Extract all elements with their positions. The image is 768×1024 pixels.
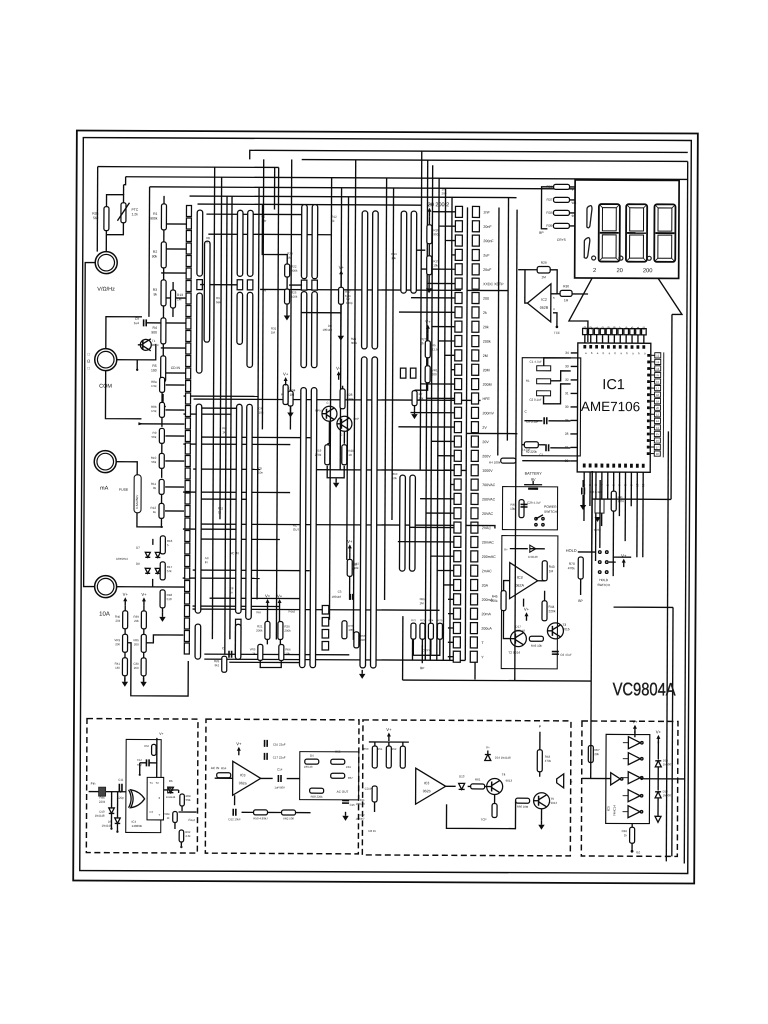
svg-text:20: 20 [616,268,622,274]
svg-text:R60 10M: R60 10M [517,805,529,809]
svg-text:2mAC: 2mAC [482,569,492,573]
svg-text:AC IN: AC IN [230,551,239,555]
svg-text:V+: V+ [632,719,638,724]
svg-text:200: 200 [115,642,120,646]
svg-text:1N4007: 1N4007 [663,762,673,766]
svg-text:D6: D6 [169,779,173,783]
svg-text:C: C [340,433,342,437]
svg-text:T1: T1 [150,781,154,785]
svg-text:062A: 062A [515,584,524,588]
svg-text:900: 900 [151,330,157,334]
svg-text:1n: 1n [230,590,234,594]
svg-text:BP: BP [578,599,583,603]
svg-text:19: 19 [606,326,610,330]
svg-text:CD IN: CD IN [171,366,181,370]
svg-text:200mAC: 200mAC [482,555,496,559]
svg-text:R39: R39 [546,224,552,228]
svg-text:9015: 9015 [562,627,569,631]
svg-text:♪: ♪ [571,779,573,784]
svg-text:20mAC: 20mAC [482,541,494,545]
svg-text:HOLD: HOLD [599,578,609,582]
svg-text:R58 220k: R58 220k [311,795,324,799]
svg-text:XXDC XETP: XXDC XETP [483,282,504,286]
svg-text:V+: V+ [425,319,431,324]
svg-text:1N4148: 1N4148 [102,824,112,828]
svg-text:VC9804A: VC9804A [613,679,676,699]
svg-text:Fin: Fin [256,610,261,614]
svg-text:1M: 1M [177,297,182,301]
svg-text:1M: 1M [287,256,292,260]
svg-text:1000V: 1000V [482,469,493,473]
svg-text:20k: 20k [115,619,120,623]
svg-text:R5: R5 [152,364,156,368]
svg-text:56k: 56k [151,460,156,464]
svg-text:200V: 200V [482,454,491,458]
svg-text:V+: V+ [347,539,353,544]
svg-text:IC1: IC1 [602,377,625,393]
svg-text:FUSE: FUSE [119,488,129,492]
svg-text:IC2: IC2 [541,298,547,302]
svg-text:180148: 180148 [356,802,365,806]
svg-text:V/Ω/Hz: V/Ω/Hz [97,287,115,293]
svg-text:100k: 100k [348,628,355,632]
svg-text:T2: T2 [156,781,160,785]
svg-text:V+: V+ [486,746,490,750]
svg-text:Φ: Φ [571,214,574,218]
svg-text:V+: V+ [265,593,271,598]
svg-text:C1 4.7uF: C1 4.7uF [530,360,543,364]
svg-text:470k: 470k [568,566,575,570]
svg-text:10k: 10k [392,476,397,480]
svg-text:510: 510 [167,597,172,601]
svg-text:V+: V+ [621,553,627,558]
svg-text:R73: R73 [420,618,425,622]
svg-text:CRYS: CRYS [557,238,566,242]
svg-text:062B: 062B [540,306,549,310]
svg-text:IN: IN [263,288,266,292]
svg-text:200: 200 [134,642,139,646]
svg-text:9014: 9014 [551,801,558,805]
svg-text:220k: 220k [549,609,556,613]
svg-text:10p: 10p [261,218,266,222]
svg-text:V+: V+ [656,729,662,734]
svg-text:R74: R74 [429,618,434,622]
svg-text:13: 13 [642,326,646,330]
svg-text:20V: 20V [482,440,489,444]
svg-text:10: 10 [635,483,639,487]
svg-text:1N4148: 1N4148 [528,555,538,559]
svg-text:C15: C15 [350,803,356,807]
svg-text:20VAC: 20VAC [482,512,494,516]
svg-text:20mA: 20mA [481,612,491,616]
svg-text:7: 7 [524,297,526,301]
svg-text:IC3: IC3 [517,576,523,580]
svg-text:4.3k: 4.3k [185,834,191,838]
svg-text:R50: R50 [363,747,368,751]
svg-text:200nF: 200nF [483,239,494,243]
svg-text:C16 22uF: C16 22uF [273,742,286,746]
svg-text:R2: R2 [153,250,157,254]
svg-text:22: 22 [589,326,593,330]
svg-text:1N4148: 1N4148 [95,814,105,818]
svg-text:28: 28 [565,432,569,436]
svg-text:56k: 56k [152,435,157,439]
svg-text:2uF: 2uF [483,254,490,258]
svg-text:9k: 9k [153,486,157,490]
svg-text:1M: 1M [420,601,425,605]
svg-text:1M: 1M [290,393,295,397]
svg-text:OUT: OUT [293,528,300,532]
svg-text:1M: 1M [271,331,276,335]
svg-text:0.47uF: 0.47uF [522,448,531,452]
svg-text:200mV: 200mV [482,411,494,415]
svg-text:180307: 180307 [356,817,365,821]
svg-text:D8: D8 [136,562,140,566]
svg-text:180148: 180148 [323,328,333,332]
svg-text:Ω: Ω [87,359,90,364]
svg-text:C3: C3 [150,810,154,814]
svg-text:17: 17 [618,326,622,330]
svg-text:mA: mA [100,486,109,492]
svg-text:10k: 10k [391,256,396,260]
svg-text:BZ: BZ [636,850,640,854]
svg-text:16: 16 [624,326,628,330]
svg-text:200k: 200k [256,628,263,632]
svg-text:V+: V+ [283,372,289,377]
svg-text:CRY4: CRY4 [422,648,430,652]
svg-text:R51: R51 [377,747,382,751]
svg-text:200k: 200k [284,629,291,633]
svg-text:10: 10 [348,453,352,457]
svg-text:R55: R55 [335,750,341,754]
svg-text:900k: 900k [433,232,440,236]
svg-text:AC OUT: AC OUT [337,790,349,794]
svg-text:NPN: NPN [315,409,321,413]
svg-text:Y: Y [159,813,161,817]
svg-text:4.5k: 4.5k [151,384,157,388]
svg-text:11: 11 [641,483,645,486]
svg-text:56B: 56B [186,798,191,802]
svg-text:9k: 9k [153,292,157,296]
svg-text:74HC14: 74HC14 [613,805,617,816]
svg-text:180148: 180148 [515,629,525,633]
svg-text:14: 14 [636,326,640,330]
svg-text:PTC: PTC [131,208,138,212]
svg-text:10k: 10k [433,263,438,267]
svg-text:TCE: TCE [554,331,560,335]
svg-text:C7: C7 [539,453,543,457]
svg-text:700VAC: 700VAC [482,483,496,487]
svg-text:200VAC: 200VAC [482,497,496,501]
svg-text:1N4148: 1N4148 [166,795,176,799]
svg-text:2nF: 2nF [483,210,490,214]
svg-text:R4 100k: R4 100k [489,461,501,465]
svg-text:V+: V+ [277,593,283,598]
svg-text:0.5: 0.5 [206,240,210,244]
svg-text:Fout: Fout [188,818,194,822]
svg-text:200: 200 [483,297,489,301]
svg-text:5k1: 5k1 [215,663,220,667]
svg-text:1M: 1M [549,569,554,573]
svg-text:100k: 100k [491,599,498,603]
svg-text:SWITCH: SWITCH [597,583,610,587]
svg-text:2k: 2k [483,311,487,315]
svg-text:20: 20 [601,326,605,330]
svg-text:1M: 1M [541,275,546,279]
svg-text:270k: 270k [347,397,354,401]
svg-text:R30: R30 [563,284,569,288]
svg-text:30: 30 [565,405,569,409]
svg-text:R1: R1 [153,212,157,216]
svg-text:260: 260 [134,666,139,670]
svg-text:D12 13uF: D12 13uF [228,817,241,821]
svg-text:180029x4: 180029x4 [116,557,128,561]
svg-text:10k: 10k [285,652,290,656]
svg-text:V+: V+ [427,202,433,207]
svg-text:BP: BP [420,666,424,670]
svg-text:VR4: VR4 [164,812,170,816]
svg-text:100p: 100p [346,301,353,305]
svg-text:1k: 1k [153,510,157,514]
svg-text:21: 21 [595,326,599,330]
svg-text:R61: R61 [475,777,481,781]
svg-text:VR2 500: VR2 500 [283,817,294,821]
svg-text:20A: 20A [482,584,489,588]
svg-text:11.5k: 11.5k [432,347,440,351]
svg-text:300k: 300k [351,341,358,345]
svg-text:Fin: Fin [91,782,96,786]
svg-text:240: 240 [360,638,365,642]
svg-text:AC IN: AC IN [211,766,220,770]
svg-text:R37: R37 [546,198,552,202]
svg-text:270k: 270k [315,453,322,457]
svg-text:D11: D11 [360,798,365,802]
svg-text:200k: 200k [483,340,491,344]
svg-text:9013: 9013 [506,779,513,783]
svg-text:V+: V+ [123,592,129,597]
svg-text:1M: 1M [564,298,569,302]
svg-text:32: 32 [565,378,569,382]
svg-text:V+: V+ [504,548,508,552]
svg-text:R72: R72 [411,618,416,622]
svg-text:10M: 10M [510,507,516,511]
svg-text:120p: 120p [117,796,124,800]
svg-text:V+: V+ [339,265,345,270]
svg-text:R62: R62 [185,830,190,834]
svg-text:10A: 10A [99,612,110,618]
svg-text:220k: 220k [99,800,106,804]
svg-text:AME7106: AME7106 [581,399,640,414]
svg-text:V+: V+ [236,741,242,746]
svg-text:C: C [327,401,329,405]
svg-text:10k: 10k [419,396,424,400]
svg-text:20k: 20k [594,752,599,756]
svg-text:V+: V+ [336,366,342,371]
svg-text:140: 140 [115,666,120,670]
svg-text:1u4: 1u4 [134,321,140,325]
svg-text:1N4007: 1N4007 [663,793,673,797]
svg-text:470k: 470k [545,759,552,763]
svg-text:57k: 57k [167,569,172,573]
svg-text:15: 15 [630,326,634,330]
svg-text:C2 0.1uF: C2 0.1uF [529,398,542,402]
svg-text:PnP: PnP [353,417,359,421]
svg-text:D13: D13 [459,774,465,778]
svg-text:D8 IN: D8 IN [368,829,375,833]
svg-text:D7: D7 [136,546,140,550]
svg-text:C3: C3 [338,590,342,594]
svg-text:200M: 200M [483,383,492,387]
svg-text:180148: 180148 [304,765,313,769]
svg-text:900k: 900k [150,216,158,220]
svg-text:BATTERY: BATTERY [525,472,543,476]
svg-text:R38: R38 [546,211,552,215]
svg-text:R63: R63 [144,744,149,748]
svg-text:20M: 20M [483,368,490,372]
svg-text:C6 47uF: C6 47uF [560,653,572,657]
svg-text:200: 200 [432,372,437,376]
svg-text:2VAC: 2VAC [482,526,492,530]
svg-text:C11: C11 [118,778,123,782]
svg-text:POWER: POWER [544,505,557,509]
svg-text:900k: 900k [291,269,298,273]
svg-text:R57: R57 [348,776,354,780]
svg-text:062b: 062b [423,789,431,793]
svg-text:V+: V+ [524,607,530,612]
svg-text:10kJ: 10kJ [346,765,352,769]
svg-text:D14 1N4148: D14 1N4148 [495,756,511,760]
svg-text:C12: C12 [360,813,365,817]
svg-text:IN: IN [205,560,208,564]
svg-text:W1: W1 [572,201,577,205]
svg-text:062a: 062a [239,781,247,785]
svg-text:TCP: TCP [480,817,486,821]
svg-text:31: 31 [565,391,569,395]
svg-text:R4: R4 [153,326,157,330]
svg-text:Fout: Fout [289,610,296,614]
svg-text:D4: D4 [310,754,314,758]
svg-text:180148: 180148 [332,595,342,599]
svg-text:C29 4.7uF: C29 4.7uF [527,501,541,505]
svg-text:1uF/50V: 1uF/50V [274,785,285,789]
svg-text:20k: 20k [483,325,489,329]
svg-text:0.5A/250V: 0.5A/250V [135,495,139,509]
svg-text:R75: R75 [438,618,443,622]
svg-text:HFE: HFE [483,397,491,401]
svg-text:34: 34 [565,351,569,355]
svg-text:V+: V+ [159,732,163,736]
svg-text:4.5k: 4.5k [151,409,157,413]
svg-text:33: 33 [565,364,569,368]
svg-text:SWITCH: SWITCH [544,510,558,514]
svg-text:R54: R54 [221,766,227,770]
svg-text:14069B: 14069B [131,824,141,828]
svg-text:R68: R68 [186,794,191,798]
svg-text:R59 4.99kJ: R59 4.99kJ [253,816,268,820]
svg-text:20k: 20k [134,619,139,623]
svg-text:V+: V+ [141,592,147,597]
svg-text:R1: R1 [526,379,530,383]
svg-text:V+: V+ [386,727,392,732]
svg-text:20uF: 20uF [483,268,492,272]
svg-text:1.2k: 1.2k [131,212,138,216]
svg-text:9014: 9014 [152,343,159,347]
svg-text:R52: R52 [391,747,396,751]
svg-text:56k: 56k [216,300,221,304]
svg-text:2M: 2M [483,354,488,358]
svg-text:2V: 2V [482,426,487,430]
svg-text:C17 22uF: C17 22uF [273,755,286,759]
svg-text:IC3: IC3 [240,773,246,777]
svg-text:200: 200 [442,191,447,195]
svg-text:10n: 10n [258,410,263,414]
svg-text:200uA: 200uA [481,627,492,631]
svg-text:T4: T4 [502,773,506,777]
svg-text:HOLD: HOLD [566,548,577,553]
svg-text:100k: 100k [291,295,298,299]
svg-text:100: 100 [151,368,157,372]
svg-text:R29: R29 [541,261,547,265]
svg-text:C14: C14 [277,767,283,771]
svg-text:23: 23 [583,326,587,330]
svg-text:C3 IN: C3 IN [365,787,373,791]
svg-text:20nF: 20nF [483,225,492,229]
svg-text:IC3: IC3 [424,781,430,785]
svg-text:IC5: IC5 [607,806,611,811]
svg-text:T2 9014: T2 9014 [508,651,520,655]
svg-text:200: 200 [643,268,653,274]
svg-text:10n: 10n [258,470,263,474]
svg-text:C12: C12 [137,758,142,762]
svg-text:18: 18 [612,326,616,330]
svg-text:90k: 90k [152,254,158,258]
svg-text:2: 2 [593,268,596,274]
svg-text:R46 10k: R46 10k [531,644,543,648]
svg-text:R3: R3 [153,288,157,292]
